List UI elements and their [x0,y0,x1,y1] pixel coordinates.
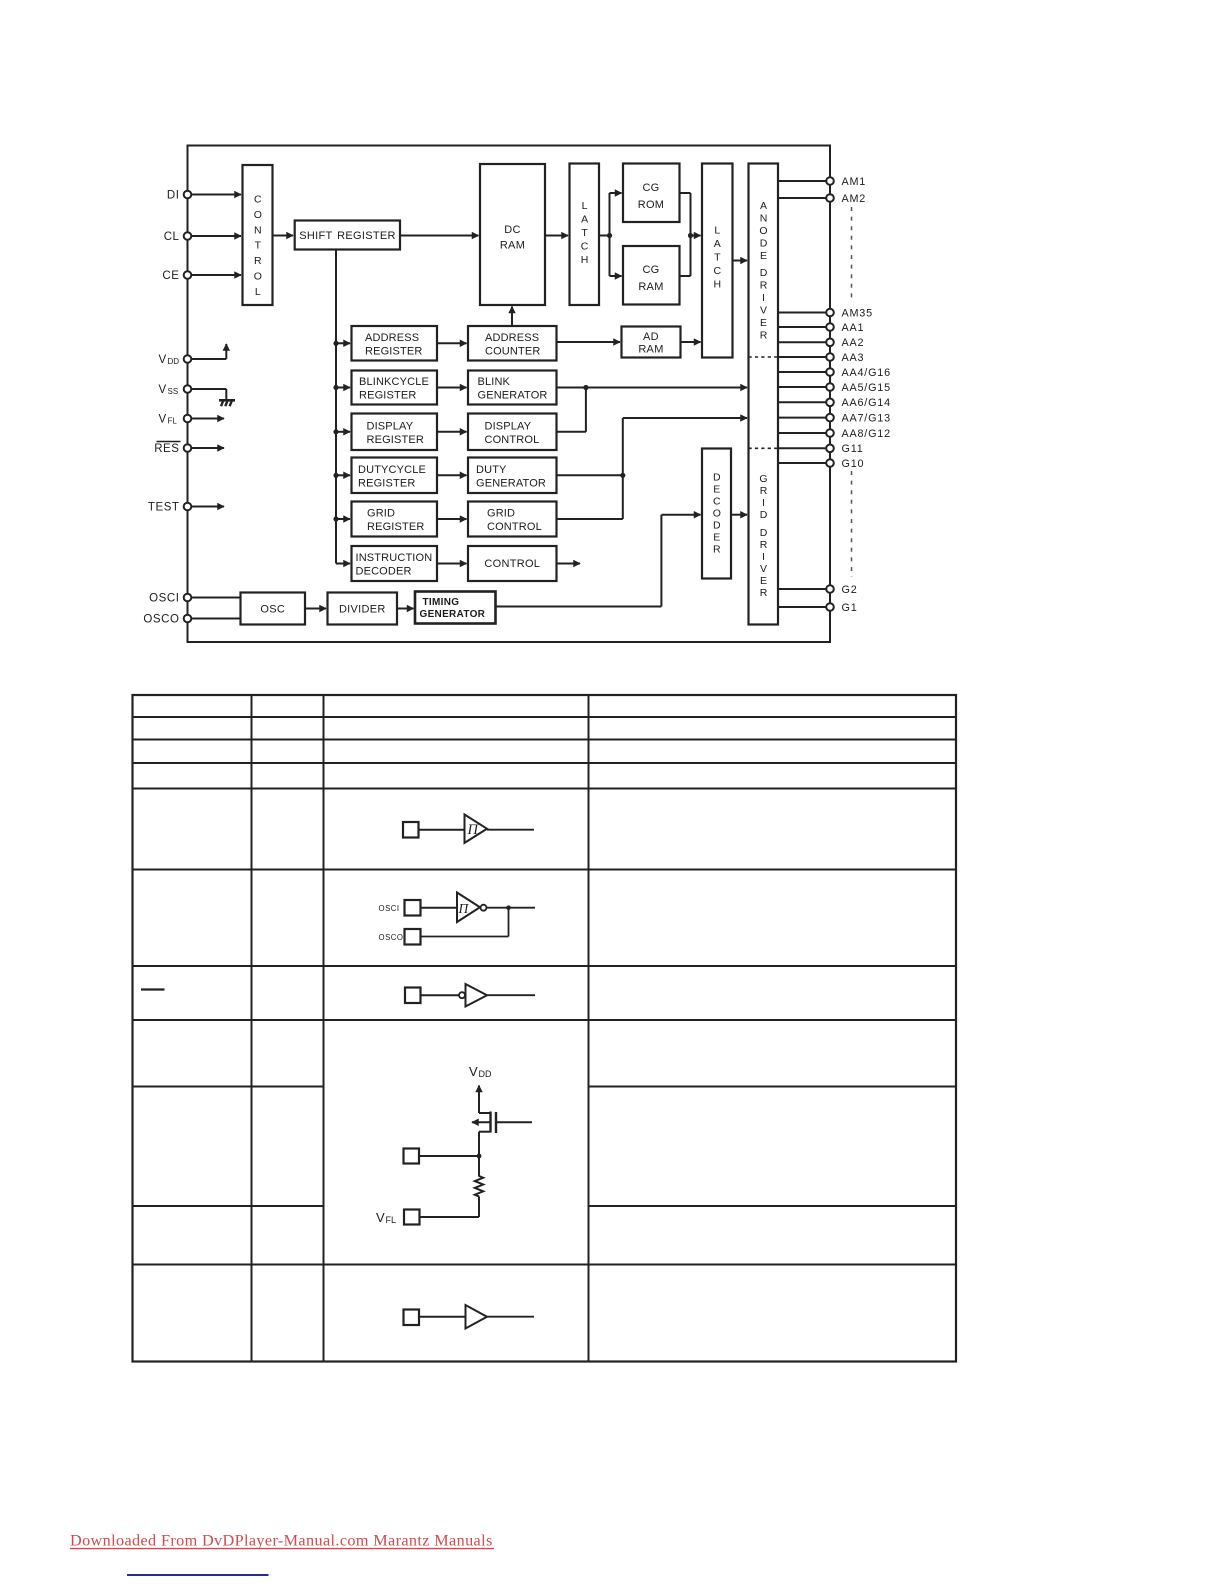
wire IC outer frame [188,146,831,643]
svg-text:E: E [713,532,720,544]
svg-text:O: O [713,508,721,520]
svg-text:E: E [760,575,767,587]
wire bus into DUTYCYCLE register [336,474,350,476]
svg-text:N: N [254,224,262,236]
svg-text:OSCO: OSCO [143,614,179,626]
wire DC RAM to LATCH [545,235,568,237]
wire bus into ADDRESS register [336,342,350,344]
block BLINKCYCLE REGISTER [352,371,438,405]
svg-text:C: C [714,265,722,277]
block DUTYCYCLE REGISTER [352,458,438,494]
power VDD arrow (I/O cell) [478,1086,480,1114]
input pad (I/O cell) [404,1149,420,1164]
wire ADDRESS COUNTER to DC RAM [511,307,513,327]
junction bus to ADDRESS register [333,341,338,346]
svg-text:DUTYCYCLE: DUTYCYCLE [358,464,426,476]
wire buffer output (last row) [487,1316,534,1318]
wire OSCO to OSC [189,618,241,620]
wire TIMING GENERATOR to DECODER [496,515,662,607]
block DISPLAY CONTROL [468,414,557,451]
svg-text:G: G [759,473,767,485]
svg-text:OSC: OSC [260,603,285,615]
input pad (row 5) [403,822,419,838]
svg-text:AA3: AA3 [842,352,865,364]
wire DISPLAY CONTROL merge [557,388,586,432]
svg-text:DUTY: DUTY [476,464,507,476]
block ANODE DRIVER / GRID DRIVER [749,164,779,625]
svg-text:E: E [713,484,720,496]
svg-text:BLINKCYCLE: BLINKCYCLE [359,376,429,388]
svg-text:A: A [760,200,767,212]
svg-text:I: I [762,551,765,563]
svg-text:AA5/G15: AA5/G15 [842,382,891,394]
svg-text:C: C [254,194,262,206]
ground VSS symbol [189,389,235,406]
svg-text:RAM: RAM [500,240,525,252]
svg-text:REGISTER: REGISTER [367,521,424,533]
svg-text:OSCO: OSCO [379,933,404,942]
svg-text:OSCI: OSCI [149,593,179,605]
svg-text:AA2: AA2 [842,337,865,349]
svg-text:V: V [159,414,167,426]
schmitt buffer (row 5) [465,815,488,843]
junction feedback (row 6) [506,905,511,910]
svg-text:CG: CG [642,264,659,276]
wire AD RAM to LATCH2 [681,341,701,343]
svg-text:ADDRESS: ADDRESS [485,332,539,344]
svg-text:DIVIDER: DIVIDER [339,603,386,615]
wire driver to G1 [778,606,828,608]
wire to CG ROM [610,192,622,194]
wire DIVIDER to TIMING GENERATOR [397,608,414,610]
svg-text:REGISTER: REGISTER [359,390,416,402]
wire LATCH2 to ANODE DRIVER [733,260,748,262]
wire buffer output (row 5) [487,829,534,831]
junction duty/grid [620,473,625,478]
junction bus to DUTYCYCLE register [333,473,338,478]
svg-text:AM1: AM1 [842,176,867,188]
svg-text:V: V [376,1210,385,1225]
junction bus to GRID register [333,516,338,521]
svg-text:D: D [760,238,768,250]
wire RES stub [189,447,224,449]
pin CE [162,270,191,282]
pin G11 [826,443,863,455]
block DUTY GENERATOR [468,458,557,494]
block DECODER [702,449,731,579]
block INSTRUCTION DECODER [352,546,438,581]
wire CG ROM output [680,193,691,236]
svg-text:CONTROL: CONTROL [487,521,542,533]
wire INSTRUCTION DECODER to CONTROL [437,563,467,565]
dashed continuation G10 to G2 [851,471,853,577]
wire DECODER to GRID DRIVER [731,514,747,516]
svg-text:Downloaded From DvDPlayer-Manu: Downloaded From DvDPlayer-Manual.com Mar… [70,1532,493,1550]
pin CL [164,231,192,243]
wire GRID CONTROL / DUTY GENERATOR to driver [557,418,623,519]
svg-text:C: C [713,496,721,508]
wire CONTROL to SHIFT REGISTER [273,235,294,237]
svg-text:DC: DC [504,224,521,236]
wire OSC to DIVIDER [305,608,326,610]
svg-text:D: D [760,527,768,539]
input pad VFL (I/O cell) [404,1210,420,1225]
svg-text:R: R [760,587,768,599]
svg-text:E: E [760,250,767,262]
svg-text:FL: FL [386,1215,397,1225]
svg-text:H: H [714,279,722,291]
wire feedback to OSCO [421,908,509,937]
footer second link underline (blue) [127,1574,269,1576]
svg-text:R: R [760,539,768,551]
wire DI to CONTROL [189,194,241,196]
inverter with input bubble (row 7) [459,984,487,1007]
pin G10 [826,458,864,470]
pin DI [167,190,191,202]
svg-text:D: D [713,520,721,532]
block AD RAM [622,327,681,358]
wire BLINKCYCLE REGISTER to BLINK GENERATOR [437,387,467,389]
block GRID REGISTER [352,502,438,537]
wire driver to G2 [778,588,828,590]
pin G1 [826,602,857,614]
power VDD symbol [189,344,226,359]
svg-text:R: R [760,280,768,292]
svg-text:DD: DD [168,357,180,366]
pin TEST [148,502,191,514]
wire inverter output (row 6) [487,907,536,909]
svg-text:R: R [713,544,721,556]
pin OSCO [143,614,191,626]
svg-text:REGISTER: REGISTER [358,477,415,489]
svg-text:G1: G1 [842,602,858,614]
svg-text:CE: CE [162,270,179,282]
svg-text:V: V [469,1064,478,1079]
pin AM2 [826,193,866,205]
junction CG merge [688,233,693,238]
block CG ROM [623,164,680,223]
input pad (last row) [404,1310,420,1326]
junction LATCH output [607,233,612,238]
svg-text:AA1: AA1 [842,322,865,334]
svg-text:T: T [581,227,588,239]
wire driver to G10 [778,462,828,464]
resistor pull-down (I/O cell) [475,1156,483,1217]
pin G2 [826,584,857,596]
block ADDRESS COUNTER [468,326,557,361]
footer link underline [70,1548,494,1550]
block LATCH first [570,164,600,306]
wire node to VFL pad [420,1216,480,1218]
wire bus into INSTRUCTION DECODER [336,563,350,565]
wire GRID REGISTER to GRID CONTROL [437,518,467,520]
svg-text:REGISTER: REGISTER [367,434,424,446]
block DISPLAY REGISTER [352,414,438,451]
pin OSCI [149,593,191,605]
svg-text:ROM: ROM [638,199,665,211]
svg-text:G11: G11 [842,443,864,455]
svg-text:L: L [255,286,261,298]
wire merged to driver [623,417,747,419]
svg-text:SHIFT REGISTER: SHIFT REGISTER [299,230,395,242]
wire bus into BLINKCYCLE register [336,387,350,389]
svg-text:C: C [581,241,589,253]
junction bus to DISPLAY register [333,429,338,434]
svg-text:AA4/G16: AA4/G16 [842,367,891,379]
pin AA5/G15 [826,382,891,394]
wire TEST stub [189,506,224,508]
buffer (last row) [466,1305,488,1329]
pin AM35 [826,307,873,319]
pin AA4/G16 [826,367,891,379]
wire pad to buffer (last row) [419,1316,466,1318]
wire CE to CONTROL [189,274,241,276]
wire bus into DISPLAY register [336,431,350,433]
svg-text:A: A [581,214,588,226]
wire output (row 7) [487,994,535,996]
wire CG merge to LATCH2 [691,235,701,237]
svg-text:AM35: AM35 [842,307,873,319]
wire OSCI to inverter [421,907,458,909]
svg-text:ADDRESS: ADDRESS [365,332,419,344]
wire pad to bubble (row 7) [421,994,459,996]
svg-text:CG: CG [642,182,659,194]
wire driver to AA6/G14 [778,401,828,403]
svg-text:A: A [714,238,721,250]
svg-text:GENERATOR: GENERATOR [420,609,486,620]
wire VFL stub [189,418,224,420]
svg-text:COUNTER: COUNTER [485,345,540,357]
svg-text:CL: CL [164,231,180,243]
svg-text:AA7/G13: AA7/G13 [842,412,891,424]
svg-text:H: H [581,254,589,266]
svg-text:T: T [714,252,721,264]
svg-text:V: V [159,354,167,366]
svg-text:N: N [760,213,768,225]
svg-text:R: R [760,330,768,342]
wire BLINK GENERATOR to driver [557,387,748,389]
svg-text:Π: Π [458,901,470,916]
svg-text:CONTROL: CONTROL [484,558,540,570]
wire driver to G11 [778,447,828,449]
svg-text:G2: G2 [842,584,858,596]
svg-text:AA8/G12: AA8/G12 [842,428,891,440]
svg-text:E: E [760,317,767,329]
wire CG RAM output [680,236,691,277]
block SHIFT REGISTER [295,221,400,250]
pin AA2 [826,337,864,349]
svg-text:L: L [714,225,720,237]
wire ADDRESS COUNTER to AD RAM [557,341,621,343]
wire LATCH to CG ROM/RAM split [599,193,610,276]
wire driver to AA4/G16 [778,371,828,373]
svg-text:T: T [255,240,262,252]
dashed continuation AM2 to AM35 [851,207,853,299]
pin AA6/G14 [826,397,891,409]
wire driver to AA7/G13 [778,417,828,419]
svg-text:DISPLAY: DISPLAY [485,421,532,433]
svg-text:BLINK: BLINK [478,376,511,388]
svg-text:DECODER: DECODER [356,566,412,578]
wire driver to AA1 [778,326,828,328]
pin VDD [159,354,192,366]
wire driver to AA5/G15 [778,386,828,388]
svg-text:V: V [760,563,767,575]
svg-text:AM2: AM2 [842,193,867,205]
svg-text:INSTRUCTION: INSTRUCTION [356,552,433,564]
block BLINK GENERATOR [468,371,557,405]
svg-text:TIMING: TIMING [423,597,460,608]
input pad (row 7) [405,988,421,1004]
wire driver to AA2 [778,341,828,343]
overline dash (row 7 col 1) [141,988,165,990]
svg-text:O: O [254,271,262,283]
svg-text:I: I [762,292,765,304]
block OSC [241,593,306,625]
wire to CG RAM [610,275,622,277]
pin AA3 [826,352,864,364]
wire driver to AA8/G12 [778,432,828,434]
table grid lines [133,695,957,1362]
wire driver to AM1 [778,180,828,182]
svg-text:TEST: TEST [148,502,180,514]
block CG RAM [623,246,680,305]
wire pad to buffer (row 5) [419,829,465,831]
svg-text:CONTROL: CONTROL [485,434,540,446]
schmitt inverter (row 6) [457,893,487,923]
svg-text:SS: SS [168,387,179,396]
junction node (I/O cell) [477,1154,482,1159]
wire into DECODER [661,514,700,516]
pin AM1 [826,176,866,188]
wire CONTROL output stub [557,563,581,565]
svg-text:D: D [760,267,768,279]
block DIVIDER [328,593,398,625]
wire driver to AM35 [778,312,828,314]
svg-text:OSCI: OSCI [379,904,400,913]
pin VSS [159,384,192,396]
wire driver to AA3 [778,356,828,358]
block ADDRESS REGISTER [352,326,438,361]
svg-text:GRID: GRID [367,508,395,520]
svg-text:O: O [759,225,767,237]
junction bus to BLINKCYCLE register [333,385,338,390]
input pad OSCO (row 6) [405,929,421,945]
svg-text:DD: DD [479,1069,492,1079]
svg-text:AD: AD [643,331,659,343]
svg-text:GRID: GRID [487,508,515,520]
svg-text:O: O [254,209,262,221]
svg-text:L: L [582,200,588,212]
svg-text:RAM: RAM [638,281,663,293]
wire ADDRESS REGISTER to ADDRESS COUNTER [437,342,467,344]
svg-text:R: R [760,485,768,497]
svg-text:I: I [762,497,765,509]
wire driver to AM2 [778,197,828,199]
wire DUTYCYCLE REGISTER to DUTY GENERATOR [437,474,467,476]
svg-text:DI: DI [167,190,180,202]
svg-text:FL: FL [168,417,178,426]
svg-text:D: D [760,509,768,521]
block TIMING GENERATOR [415,592,496,624]
svg-text:DISPLAY: DISPLAY [367,421,414,433]
wire CL to CONTROL [189,235,241,237]
wire OSCI to OSC [189,597,241,599]
wire SHIFT REGISTER to DC RAM [400,235,479,237]
block DC RAM [480,164,545,305]
wire pad to node (I/O cell) [419,1155,479,1157]
svg-text:GENERATOR: GENERATOR [476,477,546,489]
block CONTROL [243,165,273,305]
pin VFL [159,414,192,426]
svg-text:R: R [254,255,262,267]
transistor Q1 pull-up MOS [472,1112,532,1157]
input pad OSCI (row 6) [405,900,421,916]
junction blink/display [583,385,588,390]
wire DISPLAY REGISTER to DISPLAY CONTROL [437,431,467,433]
svg-text:AA6/G14: AA6/G14 [842,397,891,409]
block GRID CONTROL [468,502,557,537]
pin AA1 [826,322,864,334]
svg-text:V: V [159,384,167,396]
svg-text:V: V [760,305,767,317]
pin RES [154,442,191,456]
wire SHIFT REGISTER bus (vertical) [335,250,337,564]
svg-text:GENERATOR: GENERATOR [478,390,548,402]
svg-text:RES: RES [154,443,179,455]
svg-text:G10: G10 [842,458,865,470]
svg-text:RAM: RAM [638,343,663,355]
wire bus into GRID register [336,518,350,520]
svg-text:Π: Π [467,822,480,838]
block LATCH second [702,164,733,358]
pin AA7/G13 [826,412,891,424]
svg-text:D: D [713,472,721,484]
block CONTROL (instruction control) [468,546,557,581]
pin AA8/G12 [826,428,891,440]
svg-text:REGISTER: REGISTER [365,345,422,357]
